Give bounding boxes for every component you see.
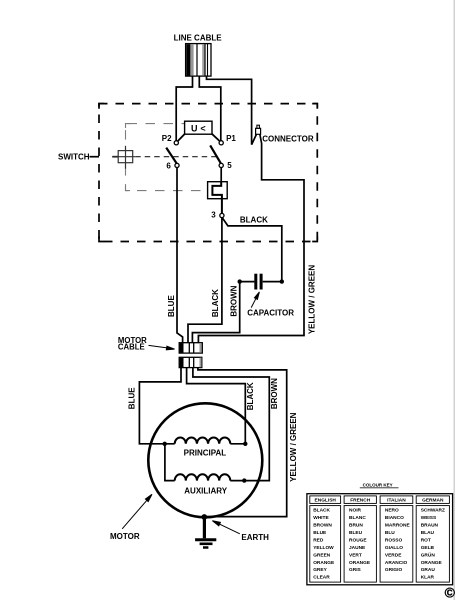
svg-text:ORANGE: ORANGE: [349, 560, 371, 566]
svg-text:BRAUN: BRAUN: [421, 523, 439, 529]
svg-text:GRAU: GRAU: [421, 567, 436, 573]
svg-text:GERMAN: GERMAN: [422, 498, 444, 504]
svg-text:©: ©: [445, 585, 456, 600]
svg-text:YELLOW: YELLOW: [313, 545, 334, 551]
svg-text:CLEAR: CLEAR: [313, 575, 330, 581]
svg-text:WEISS: WEISS: [421, 515, 437, 521]
svg-text:ROSSO: ROSSO: [385, 537, 403, 543]
svg-text:LINE CABLE: LINE CABLE: [174, 33, 223, 42]
svg-text:VERDE: VERDE: [385, 552, 402, 558]
svg-text:EARTH: EARTH: [241, 533, 269, 542]
svg-text:GRIGIO: GRIGIO: [385, 567, 403, 573]
svg-text:BLACK: BLACK: [211, 289, 220, 317]
svg-text:BIANCO: BIANCO: [385, 515, 404, 521]
svg-text:BLUE: BLUE: [128, 387, 137, 409]
svg-text:ITALIAN: ITALIAN: [387, 498, 406, 504]
svg-text:COLOUR KEY: COLOUR KEY: [363, 482, 393, 487]
svg-text:GRIS: GRIS: [349, 567, 362, 573]
svg-text:RED: RED: [313, 537, 324, 543]
svg-text:NOIR: NOIR: [349, 508, 362, 514]
svg-text:BRUN: BRUN: [349, 523, 363, 529]
svg-text:BLACK: BLACK: [313, 508, 330, 514]
svg-text:NERO: NERO: [385, 508, 399, 514]
svg-text:CAPACITOR: CAPACITOR: [247, 308, 294, 317]
svg-text:BROWN: BROWN: [230, 285, 239, 316]
svg-text:U: U: [191, 123, 198, 133]
svg-text:JAUNE: JAUNE: [349, 545, 366, 551]
svg-text:<: <: [200, 123, 205, 133]
svg-text:P2: P2: [162, 134, 172, 143]
svg-text:AUXILIARY: AUXILIARY: [184, 486, 227, 495]
svg-text:BLU: BLU: [385, 530, 395, 536]
svg-text:BLACK: BLACK: [240, 216, 268, 225]
svg-text:BLACK: BLACK: [246, 382, 255, 410]
svg-text:SCHWARZ: SCHWARZ: [421, 508, 445, 514]
svg-text:GREY: GREY: [313, 567, 327, 573]
svg-text:GRÜN: GRÜN: [421, 551, 436, 558]
svg-text:KLAR: KLAR: [421, 575, 435, 581]
svg-text:6: 6: [166, 162, 171, 171]
svg-text:ENGLISH: ENGLISH: [315, 498, 337, 504]
svg-text:3: 3: [211, 211, 216, 220]
svg-text:GELB: GELB: [421, 545, 435, 551]
svg-text:YELLOW / GREEN: YELLOW / GREEN: [307, 265, 316, 335]
svg-text:BROWN: BROWN: [313, 523, 332, 529]
svg-text:ROT: ROT: [421, 537, 431, 543]
svg-text:BLANC: BLANC: [349, 515, 366, 521]
svg-text:BLUE: BLUE: [313, 530, 327, 536]
svg-text:BLAU: BLAU: [421, 530, 435, 536]
svg-text:SWITCH: SWITCH: [58, 153, 90, 162]
svg-text:VERT: VERT: [349, 552, 362, 558]
svg-text:P1: P1: [226, 134, 236, 143]
svg-text:PRINCIPAL: PRINCIPAL: [184, 449, 227, 458]
svg-text:MOTOR: MOTOR: [110, 532, 140, 541]
svg-text:WHITE: WHITE: [313, 515, 329, 521]
svg-text:BLUE: BLUE: [167, 295, 176, 317]
svg-text:ROUGE: ROUGE: [349, 537, 367, 543]
svg-text:BLEU: BLEU: [349, 530, 363, 536]
svg-text:FRENCH: FRENCH: [350, 498, 371, 504]
svg-text:GIALLO: GIALLO: [385, 545, 403, 551]
svg-text:ORANGE: ORANGE: [421, 560, 443, 566]
svg-text:ARANCIO: ARANCIO: [385, 560, 408, 566]
svg-text:BROWN: BROWN: [270, 378, 279, 409]
svg-text:GREEN: GREEN: [313, 552, 331, 558]
svg-text:YELLOW / GREEN: YELLOW / GREEN: [289, 412, 298, 482]
svg-text:5: 5: [227, 161, 232, 170]
svg-text:MARRONE: MARRONE: [385, 523, 411, 529]
svg-text:ORANGE: ORANGE: [313, 560, 335, 566]
svg-text:CONNECTOR: CONNECTOR: [262, 135, 314, 144]
svg-text:CABLE: CABLE: [118, 342, 145, 351]
